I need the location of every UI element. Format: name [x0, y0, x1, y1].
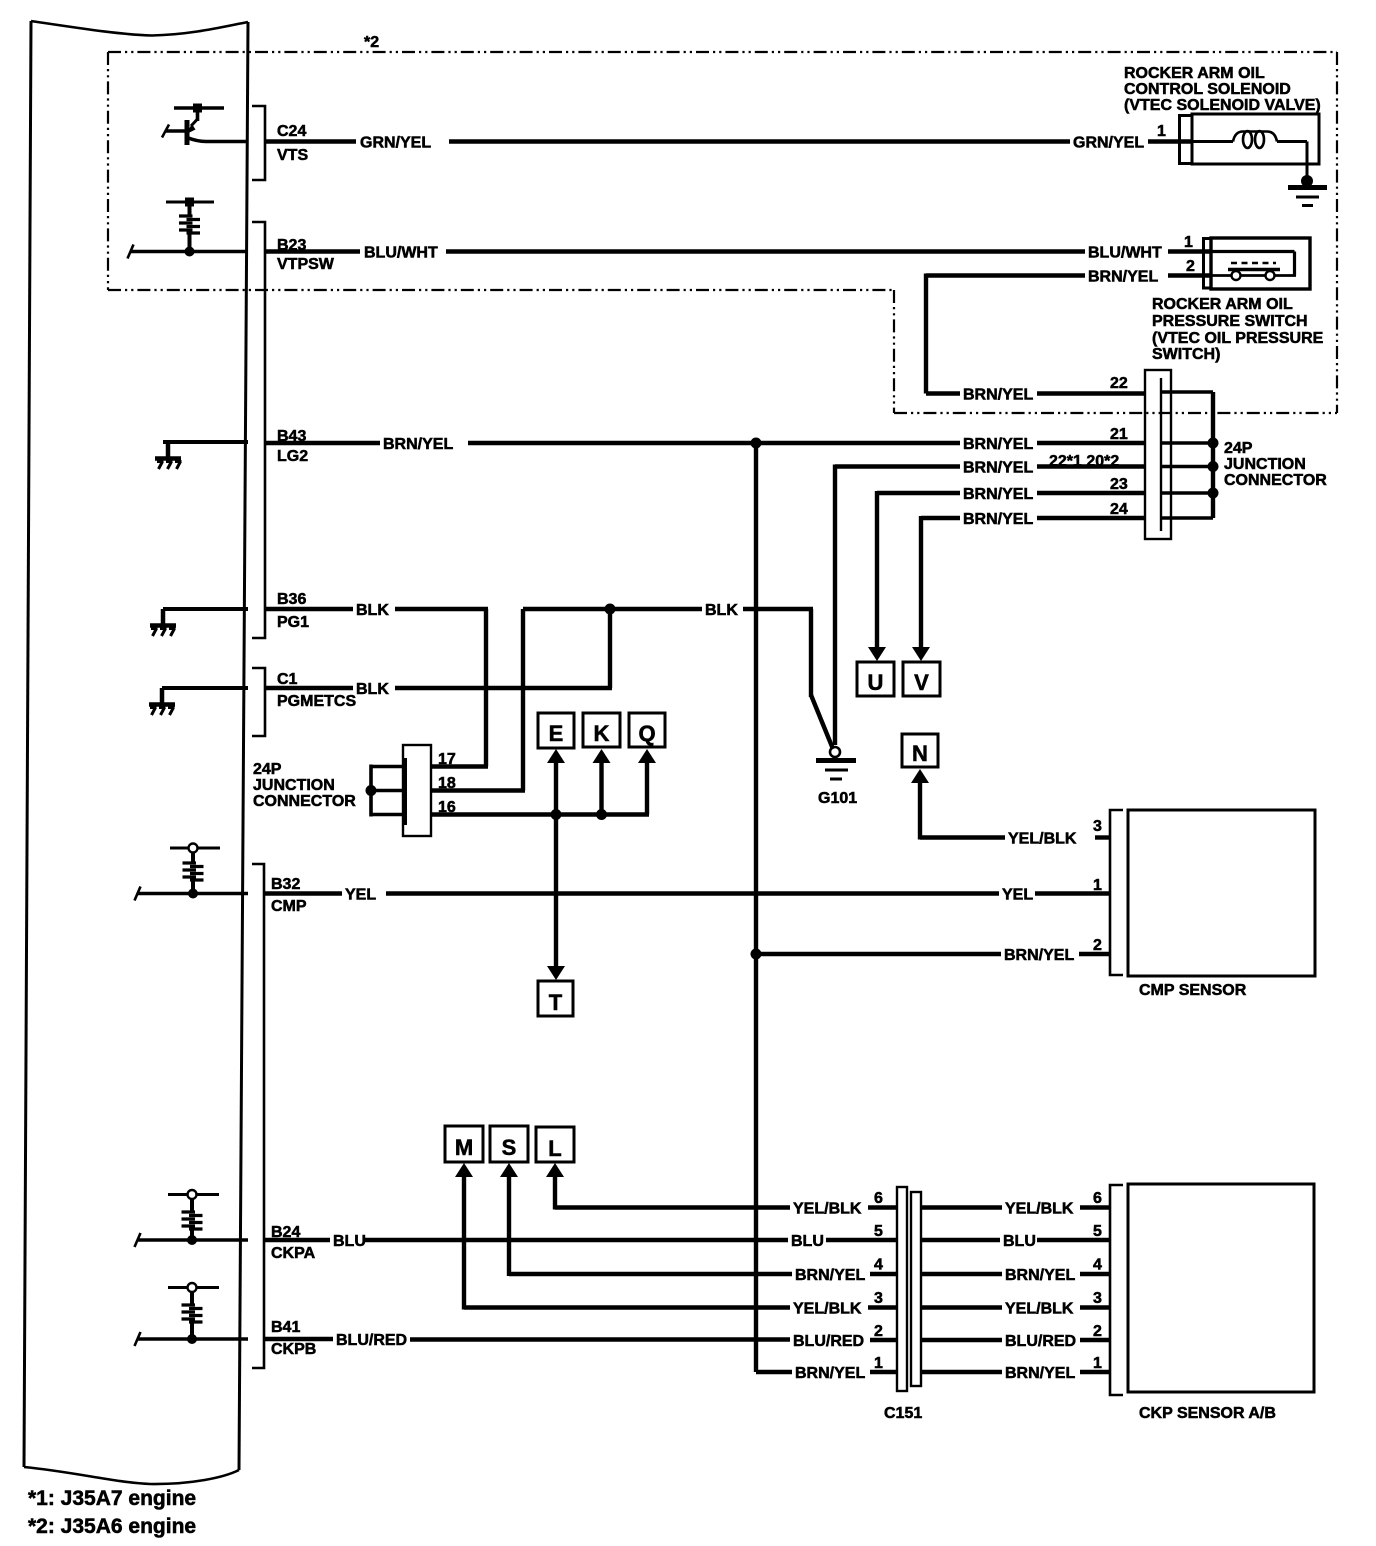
wire YEL/BLK to N	[920, 782, 1111, 840]
wire BLU B24 to C151 pin 5	[265, 1238, 898, 1242]
wire solenoid to ground	[1306, 142, 1309, 178]
ground at B36 pin	[150, 609, 176, 636]
node arrow into T	[547, 966, 565, 980]
svg-text:BLU: BLU	[791, 1233, 824, 1250]
svg-text:BRN/YEL: BRN/YEL	[795, 1267, 865, 1284]
svg-text:CMP: CMP	[271, 898, 307, 915]
wire junction right stubs to bus	[1161, 392, 1213, 518]
wire BRN/YEL main vertical branch	[754, 443, 758, 1372]
wire GRN/YEL C24 to solenoid	[265, 139, 1193, 143]
node arrow into U	[868, 647, 886, 661]
node junction left dot pin18	[366, 785, 377, 796]
node arrow into E	[547, 749, 565, 763]
connector bracket pins B32/B24/B41	[252, 864, 264, 1368]
svg-text:BLU/RED: BLU/RED	[336, 1332, 407, 1349]
svg-text:S: S	[502, 1135, 517, 1160]
wire BRN/YEL pin 23 to U	[877, 491, 1146, 649]
wire BRN/YEL to CMP sensor pin 2	[756, 952, 1111, 956]
svg-text:B41: B41	[271, 1319, 300, 1336]
svg-text:5: 5	[874, 1223, 883, 1240]
connector C151 inline	[897, 1187, 921, 1391]
svg-text:B36: B36	[277, 591, 306, 608]
svg-text:YEL/BLK: YEL/BLK	[1005, 1201, 1074, 1218]
svg-text:C151: C151	[884, 1405, 922, 1422]
svg-text:BLU/WHT: BLU/WHT	[1088, 245, 1162, 262]
connector bracket CKP sensor	[1110, 1185, 1123, 1395]
svg-text:CKPA: CKPA	[271, 1245, 316, 1262]
node junction bus dot 22*1	[1208, 461, 1219, 472]
wire YEL/BLK M to C151 pin 3	[464, 1176, 898, 1310]
ground at B43 pin	[155, 442, 182, 469]
svg-text:3: 3	[1093, 1290, 1102, 1307]
svg-text:YEL/BLK: YEL/BLK	[793, 1301, 862, 1318]
node M connector box	[445, 1126, 483, 1162]
node arrow into K	[593, 749, 611, 763]
svg-text:N: N	[912, 741, 928, 766]
svg-text:6: 6	[1093, 1190, 1102, 1207]
svg-text:G101: G101	[818, 790, 857, 807]
svg-text:BRN/YEL: BRN/YEL	[963, 460, 1033, 477]
connector bracket switch pins	[1204, 239, 1212, 289]
wire B43 internal	[163, 440, 248, 444]
svg-text:YEL/BLK: YEL/BLK	[793, 1201, 862, 1218]
node pin16 dot at K branch	[596, 809, 607, 820]
wire BLK C1 branch	[265, 609, 612, 688]
svg-text:(VTEC OIL PRESSURE: (VTEC OIL PRESSURE	[1152, 330, 1324, 347]
wire BLU/WHT B23 to pressure switch	[265, 249, 1212, 253]
svg-text:YEL: YEL	[1002, 887, 1033, 904]
node junction bus dot 21	[1208, 438, 1219, 449]
node arrow into M	[455, 1163, 473, 1177]
svg-text:BLK: BLK	[356, 681, 389, 698]
svg-text:U: U	[868, 670, 884, 695]
node junction dot BRN/YEL CMP branch	[751, 949, 762, 960]
svg-text:PRESSURE SWITCH: PRESSURE SWITCH	[1152, 313, 1308, 330]
svg-text:6: 6	[874, 1190, 883, 1207]
wire BLU/RED B41 to C151 pin 2	[265, 1339, 898, 1340]
node arrow into L	[546, 1163, 564, 1177]
svg-text:*2: *2	[364, 34, 379, 51]
node S connector box	[490, 1126, 528, 1162]
wire ECM left edge	[24, 21, 31, 1467]
svg-text:BLU/RED: BLU/RED	[1005, 1333, 1076, 1350]
node L connector box	[536, 1127, 574, 1162]
connector 24P junction connector (left)	[403, 745, 431, 836]
svg-text:1: 1	[1093, 877, 1102, 894]
svg-text:YEL/BLK: YEL/BLK	[1005, 1301, 1074, 1318]
svg-text:GRN/YEL: GRN/YEL	[1073, 135, 1144, 152]
svg-text:22: 22	[1110, 375, 1128, 392]
svg-text:VTPSW: VTPSW	[277, 256, 335, 273]
svg-text:PGMETCS: PGMETCS	[277, 693, 356, 710]
svg-text:24: 24	[1110, 501, 1128, 518]
svg-text:2: 2	[1093, 1323, 1102, 1340]
svg-text:1: 1	[1184, 234, 1193, 251]
wire B36 internal	[163, 607, 248, 611]
svg-text:CKPB: CKPB	[271, 1341, 316, 1358]
svg-text:ROCKER ARM OIL: ROCKER ARM OIL	[1152, 296, 1293, 313]
connector bracket pin C1	[252, 668, 265, 736]
svg-text:*2: J35A6 engine: *2: J35A6 engine	[28, 1515, 196, 1538]
wire B32 internal	[137, 892, 248, 895]
svg-text:BRN/YEL: BRN/YEL	[1005, 1365, 1075, 1382]
wire YEL/BLK C151 to CKP pin 3	[921, 1305, 1111, 1309]
node T connector box	[538, 981, 573, 1016]
node wire-continuation tick B32	[135, 887, 141, 901]
wire dash-dot top edge	[108, 51, 1337, 53]
svg-text:L: L	[548, 1136, 561, 1161]
svg-text:3: 3	[1093, 818, 1102, 835]
ECM module torn-paper outline (left)	[24, 21, 248, 1484]
svg-text:BRN/YEL: BRN/YEL	[963, 387, 1033, 404]
svg-text:BLU: BLU	[1003, 1233, 1036, 1250]
svg-text:CONNECTOR: CONNECTOR	[253, 793, 356, 810]
wire BRN/YEL switch pin2 down to junction pin 22	[926, 274, 1212, 394]
wire B41 internal	[137, 1337, 248, 1340]
wire YEL/BLK C151 to CKP pin 6	[921, 1205, 1111, 1209]
resistor R4 (CKPB circuit inside ECM)	[168, 1283, 219, 1344]
wire dash-dot step edge	[893, 290, 895, 413]
resistor R3 (CKPA circuit inside ECM)	[168, 1190, 219, 1245]
wire B23 internal	[130, 250, 248, 253]
connector bracket solenoid pin 1	[1180, 116, 1193, 164]
svg-text:BLU/WHT: BLU/WHT	[364, 245, 438, 262]
svg-text:T: T	[549, 990, 563, 1015]
svg-text:Q: Q	[638, 721, 655, 746]
node Q connector box	[629, 713, 665, 747]
node wire-continuation tick B41	[135, 1332, 141, 1346]
svg-text:CONNECTOR: CONNECTOR	[1224, 472, 1327, 489]
node U connector box	[857, 662, 894, 696]
svg-text:17: 17	[438, 751, 456, 768]
CKP sensor A/B box	[1128, 1184, 1314, 1392]
svg-text:K: K	[594, 721, 610, 746]
svg-text:2: 2	[1186, 258, 1195, 275]
wire junction bus vertical	[1211, 392, 1215, 518]
svg-text:2: 2	[1093, 937, 1102, 954]
node junction bus dot 23	[1208, 488, 1219, 499]
connector bracket CMP sensor	[1110, 810, 1123, 975]
wire dash-dot right edge	[1336, 52, 1338, 413]
node junction dot B43 branch	[751, 438, 762, 449]
svg-text:1: 1	[1093, 1355, 1102, 1372]
resistor R2 (CMP circuit inside ECM)	[170, 844, 220, 899]
svg-text:CKP SENSOR A/B: CKP SENSOR A/B	[1139, 1405, 1276, 1422]
svg-text:(VTEC SOLENOID VALVE): (VTEC SOLENOID VALVE)	[1124, 97, 1321, 114]
svg-text:1: 1	[1157, 123, 1166, 140]
node wire-continuation tick B24	[135, 1233, 141, 1247]
wire B24 internal	[137, 1238, 248, 1241]
wire BRN/YEL 22*1 20*2 to junction	[835, 465, 1146, 746]
node N connector box	[902, 734, 938, 767]
connector bracket pin C24	[252, 106, 265, 180]
wire junction left bus bracket	[369, 765, 403, 817]
wire dash-dot bottom-left edge	[108, 289, 894, 291]
node arrow into S	[500, 1163, 518, 1177]
node pin16 dot at E branch	[551, 809, 562, 820]
wire BRN/YEL B43 to junction pin 21	[265, 441, 1146, 445]
svg-text:BLK: BLK	[356, 602, 389, 619]
wire YEL B32 to CMP sensor pin 1	[265, 891, 1111, 895]
wire BRN/YEL C151 to CKP pin 1	[921, 1370, 1111, 1374]
svg-text:GRN/YEL: GRN/YEL	[360, 135, 431, 152]
svg-text:24P: 24P	[253, 761, 282, 778]
wire ECM right edge	[239, 22, 248, 1470]
svg-text:BRN/YEL: BRN/YEL	[963, 436, 1033, 453]
svg-text:CMP SENSOR: CMP SENSOR	[1139, 982, 1247, 999]
node K connector box	[583, 713, 620, 747]
svg-text:C1: C1	[277, 671, 298, 688]
svg-text:21: 21	[1110, 426, 1128, 443]
svg-text:4: 4	[1093, 1257, 1102, 1274]
svg-text:23: 23	[1110, 476, 1128, 493]
svg-text:YEL: YEL	[345, 887, 376, 904]
svg-text:BLU: BLU	[333, 1233, 366, 1250]
svg-text:3: 3	[874, 1290, 883, 1307]
wire dash-dot bottom-right edge	[894, 412, 1337, 414]
node V connector box	[903, 662, 940, 696]
svg-text:1: 1	[874, 1355, 883, 1372]
node arrow into N	[911, 769, 929, 783]
wire BLU C151 to CKP pin 5	[921, 1238, 1111, 1242]
svg-text:E: E	[549, 721, 564, 746]
wire BRN/YEL C151 to CKP pin 4	[921, 1272, 1111, 1276]
node junction dot BLK/C1	[605, 604, 616, 615]
svg-text:BRN/YEL: BRN/YEL	[1004, 947, 1074, 964]
wire ECM top torn edge	[31, 21, 248, 36]
svg-text:CONTROL SOLENOID: CONTROL SOLENOID	[1124, 81, 1291, 98]
wire junction pin 16 to E K Q	[431, 763, 649, 815]
svg-text:YEL/BLK: YEL/BLK	[1008, 831, 1077, 848]
node arrow into V	[912, 647, 930, 661]
ground at C1 pin	[149, 688, 175, 715]
svg-text:BRN/YEL: BRN/YEL	[963, 511, 1033, 528]
wire YEL/BLK L to C151 pin 6	[555, 1176, 898, 1210]
node E connector box	[538, 713, 574, 748]
svg-text:4: 4	[874, 1257, 883, 1274]
ground solenoid case	[1288, 175, 1327, 206]
svg-text:M: M	[455, 1135, 473, 1160]
wire BLK B36 to junction pin 17	[265, 609, 488, 767]
svg-text:LG2: LG2	[277, 448, 308, 465]
svg-text:ROCKER ARM OIL: ROCKER ARM OIL	[1124, 65, 1265, 82]
svg-text:BRN/YEL: BRN/YEL	[963, 486, 1033, 503]
svg-text:BLK: BLK	[705, 602, 738, 619]
node *2 dash-dot boundary box (J35A6 engine option)	[108, 52, 1337, 413]
svg-text:BRN/YEL: BRN/YEL	[1005, 1267, 1075, 1284]
wire BLK junction pin 18 to G101	[431, 609, 833, 791]
rocker arm oil pressure switch S1	[1211, 238, 1310, 289]
svg-text:C24: C24	[277, 123, 306, 140]
wire ECM bottom torn edge	[24, 1467, 239, 1484]
svg-text:BRN/YEL: BRN/YEL	[1088, 269, 1158, 286]
svg-text:*1: J35A7 engine: *1: J35A7 engine	[28, 1487, 196, 1510]
svg-text:B32: B32	[271, 876, 300, 893]
rocker arm oil control solenoid L1	[1192, 114, 1319, 164]
ground G101	[816, 747, 856, 779]
svg-text:24P: 24P	[1224, 440, 1253, 457]
svg-text:BLU/RED: BLU/RED	[793, 1333, 864, 1350]
svg-text:JUNCTION: JUNCTION	[253, 777, 335, 794]
wire BRN/YEL pin 24 to V	[921, 516, 1146, 649]
svg-text:2: 2	[874, 1323, 883, 1340]
svg-text:JUNCTION: JUNCTION	[1224, 456, 1306, 473]
svg-text:5: 5	[1093, 1223, 1102, 1240]
wire C1 internal	[162, 686, 248, 690]
svg-text:BRN/YEL: BRN/YEL	[383, 436, 453, 453]
svg-text:18: 18	[438, 775, 456, 792]
CMP sensor box	[1128, 810, 1315, 976]
svg-text:VTS: VTS	[277, 147, 308, 164]
wire BLU/RED C151 to CKP pin 2	[921, 1338, 1111, 1342]
wire BRN/YEL vertical to C151 pin 1	[756, 1370, 898, 1374]
wire BRN/YEL S to C151 pin 4	[509, 1176, 898, 1276]
svg-text:BRN/YEL: BRN/YEL	[795, 1365, 865, 1382]
svg-text:SWITCH): SWITCH)	[1152, 346, 1220, 363]
transistor Q1 (VTS driver inside ECM)	[162, 104, 248, 146]
wire E branch down to T	[554, 815, 558, 968]
connector 24P junction connector (right)	[1145, 370, 1171, 539]
svg-text:V: V	[914, 670, 929, 695]
resistor R1 (VTPSW pull-up inside ECM)	[166, 198, 214, 257]
svg-text:PG1: PG1	[277, 614, 309, 631]
svg-text:22*1 20*2: 22*1 20*2	[1049, 453, 1119, 470]
node arrow into Q	[638, 749, 656, 763]
node wire-continuation tick B23	[128, 245, 134, 259]
wire dash-dot left edge	[107, 52, 109, 290]
connector bracket pins B23/B43/B36	[252, 222, 265, 638]
